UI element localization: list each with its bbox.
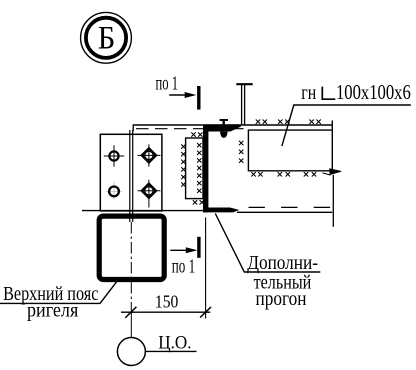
node marker Б outer circle [81, 12, 132, 63]
beam hidden dashed line top [136, 128, 246, 130]
svg-text:100x100x6: 100x100x6 [336, 80, 411, 104]
bolt B3 centerlines [138, 144, 161, 166]
bolt B4 diamond [142, 184, 156, 198]
center of gravity circle [117, 338, 145, 366]
weld marks: angle bottom edge [251, 172, 316, 176]
bolt B4 circle [145, 187, 153, 195]
bolt stud long: head [236, 83, 252, 85]
bolt stud long: shank lines [242, 85, 245, 125]
beam bottom edge right solid [237, 211, 332, 213]
svg-text:прогон: прогон [256, 288, 307, 310]
weld marks: stiffener top [191, 132, 202, 136]
svg-text:150: 150 [155, 292, 179, 312]
angle purlin top edge [248, 129, 332, 131]
beam top edge left step [132, 124, 134, 131]
beam cut line lower [332, 175, 334, 227]
leader line Дополнительный прогон [215, 214, 320, 273]
beam top edge line [133, 124, 332, 126]
section cut 1 lower: arrow line [170, 249, 187, 251]
bolt short: shank [222, 121, 224, 128]
bolted plate outline [100, 134, 162, 211]
centerline axis (dash-dot) [130, 222, 132, 302]
dimension tick left [125, 307, 136, 318]
section cut 1 lower: arrowhead [186, 247, 198, 253]
Ц.О. baseline [145, 350, 196, 352]
label angle symbol [322, 87, 335, 100]
beam bottom hidden dashed line [249, 206, 333, 208]
bolt B4 centerlines [138, 180, 161, 208]
dimension extension line right [205, 218, 207, 319]
bolt short: nut below flange [220, 132, 228, 138]
leader line гн label [282, 105, 411, 146]
centerline axis lower solid [130, 302, 132, 337]
weld marks: beam top edge [256, 120, 321, 124]
channel bottom flange (filled) [203, 208, 239, 213]
bolt B1 centerlines [104, 145, 125, 167]
plate joint double line left [129, 130, 131, 222]
svg-text:Ц.О.: Ц.О. [158, 334, 191, 354]
weld marks: stiffener bottom [193, 200, 204, 204]
bolt B3 diamond [142, 148, 156, 162]
weld marks: stiffener left edge [181, 144, 185, 186]
svg-text:Дополни-: Дополни- [247, 252, 318, 274]
weld marks: angle left edge [239, 141, 243, 163]
channel top flange (filled) [203, 124, 241, 131]
beam bottom edge line [82, 210, 205, 212]
bolt hole B2 centerlines [106, 182, 122, 200]
section cut 1 lower: bar [197, 237, 200, 258]
svg-text:по 1: по 1 [172, 256, 195, 278]
beam cut break arrow [323, 169, 341, 175]
stiffener plate outline [186, 138, 203, 199]
angle purlin right edge / beam cut line upper [331, 121, 333, 171]
bolt B1 circle [109, 151, 118, 160]
bolt hole B2 circle [109, 187, 119, 197]
dimension line 150 [121, 311, 210, 313]
angle purlin bottom edge [248, 170, 329, 172]
bolt short: head [220, 119, 228, 121]
weld marks: stiffener right edge [197, 143, 201, 193]
plate joint double line right [132, 130, 134, 222]
dimension tick right [200, 307, 211, 318]
node marker Б inner circle [86, 18, 126, 58]
svg-text:гн: гн [301, 80, 316, 104]
section cut 1 upper: arrowhead [185, 92, 197, 98]
bolt B3 circle [145, 151, 153, 159]
section cut 1 upper: bar [197, 86, 200, 110]
svg-text:Б: Б [98, 21, 116, 57]
channel web (section, filled) [203, 127, 208, 213]
section cut 1 upper: arrow line [169, 94, 186, 96]
angle purlin left edge [247, 130, 249, 172]
square tube top chord (Верхний пояс) [99, 216, 164, 279]
svg-text:ригеля: ригеля [27, 300, 78, 321]
leader line Верхний пояс [0, 282, 117, 304]
svg-text:по 1: по 1 [156, 73, 179, 95]
